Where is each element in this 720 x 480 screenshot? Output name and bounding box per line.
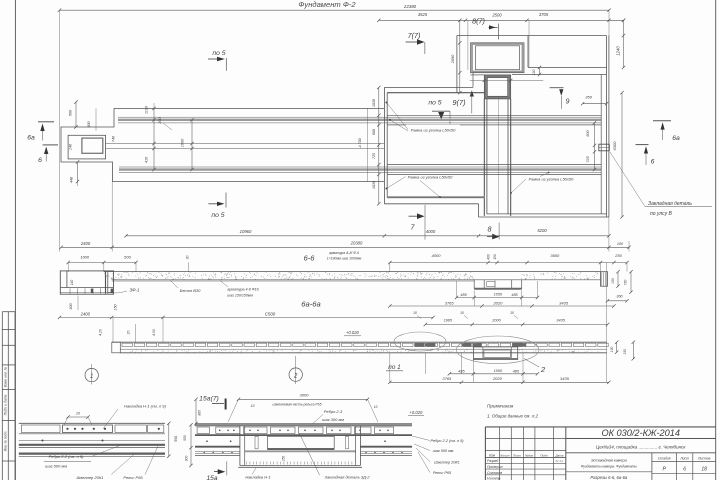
svg-text:С500: С500 — [265, 311, 276, 316]
detail mid lower rows outside tub — [195, 451, 240, 453]
detail mid boxes row — [197, 427, 209, 434]
svg-text:Инв. № подл.: Инв. № подл. — [3, 431, 7, 452]
svg-text:Взам. инв. №: Взам. инв. № — [3, 366, 7, 387]
svg-text:1100: 1100 — [145, 105, 149, 114]
ellipse highlight joint — [456, 336, 538, 364]
svg-text:740: 740 — [112, 135, 116, 142]
structure left wall — [383, 87, 385, 203]
detail mid box rivets — [219, 430, 221, 432]
svg-text:Рельс Р65: Рельс Р65 — [123, 475, 143, 480]
svg-text:150: 150 — [611, 278, 615, 284]
svg-text:6-6: 6-6 — [304, 253, 316, 262]
svg-text:по 5: по 5 — [212, 50, 225, 57]
svg-text:1965: 1965 — [444, 319, 453, 323]
svg-text:300: 300 — [69, 302, 73, 309]
svg-text:15а: 15а — [206, 475, 217, 480]
svg-text:6: 6 — [651, 159, 655, 166]
svg-text:2: 2 — [293, 373, 298, 379]
joint extension verticals — [424, 353, 426, 374]
svg-text:725: 725 — [586, 155, 590, 162]
svg-text:Листов: Листов — [697, 457, 711, 461]
svg-text:2020: 2020 — [492, 300, 503, 305]
svg-text:Рамка из уголка L50x50: Рамка из уголка L50x50 — [408, 175, 453, 180]
cut marker 6a right — [653, 120, 671, 122]
svg-text:Кол.уч: Кол.уч — [501, 453, 510, 457]
svg-text:150: 150 — [623, 349, 627, 355]
svg-text:2400: 2400 — [80, 241, 91, 246]
svg-text:22380: 22380 — [403, 4, 417, 9]
section 6a-6a plank row — [122, 343, 132, 346]
dim row 3525-2500-3705 — [379, 19, 624, 21]
detail rail dark band 2 — [19, 453, 165, 455]
svg-text:Стадия: Стадия — [658, 457, 671, 461]
structure top-left wall — [384, 86, 473, 88]
detail dim 10 — [68, 416, 88, 418]
svg-text:изменяемая часть рельса Р65: изменяемая часть рельса Р65 — [273, 402, 322, 406]
dip extension verticals — [473, 291, 475, 307]
svg-text:Разрезы 6-6, 6а-6а: Разрезы 6-6, 6а-6а — [590, 475, 628, 480]
svg-text:130: 130 — [532, 70, 536, 76]
detail dim 550 right — [168, 423, 170, 456]
section flag 9 — [550, 87, 564, 89]
detail rail plan top line — [19, 422, 165, 424]
svg-text:10: 10 — [251, 404, 255, 408]
svg-text:4000: 4000 — [426, 229, 436, 234]
svg-text:4.00: 4.00 — [152, 329, 156, 336]
frame stamp column lines — [1, 312, 3, 480]
svg-text:шаг 300 мм: шаг 300 мм — [322, 417, 344, 422]
svg-text:140: 140 — [70, 280, 74, 286]
svg-text:485: 485 — [511, 293, 518, 297]
detail rail dark band 1 — [19, 444, 165, 446]
svg-text:730: 730 — [623, 280, 627, 286]
svg-text:шаг 500 мм: шаг 500 мм — [433, 449, 454, 453]
label ramka 1 — [406, 125, 460, 133]
detail rail under line — [19, 433, 165, 435]
svg-text:6а-6а: 6а-6а — [301, 299, 320, 308]
svg-text:9: 9 — [566, 97, 570, 106]
section 6-6 footing outline — [60, 271, 113, 294]
svg-text:200: 200 — [158, 116, 162, 124]
dim 600 725 right wall — [594, 123, 596, 170]
rail band 2 lower thin — [119, 172, 601, 174]
svg-text:3000: 3000 — [300, 392, 310, 397]
section 6a-6a dark planks — [414, 343, 424, 346]
section 6-6 middle dip — [475, 272, 522, 279]
svg-text:Закладная деталь ЗД-2: Закладная деталь ЗД-2 — [325, 474, 371, 479]
dim row 4000 3650 250 — [390, 262, 627, 264]
axis bubble 2 — [295, 356, 297, 384]
footing slab cells — [69, 288, 71, 294]
title block left grid verticals — [498, 427, 500, 480]
sheet inner border right — [715, 0, 717, 480]
svg-text:360: 360 — [616, 294, 623, 298]
dim 130 bracket — [539, 67, 541, 74]
structure bottom edge — [479, 216, 609, 218]
svg-text:2500: 2500 — [491, 12, 502, 17]
svg-text:15а(7): 15а(7) — [199, 396, 219, 403]
svg-text:400: 400 — [487, 254, 491, 260]
svg-text:1240: 1240 — [616, 46, 621, 56]
lower pit U2 — [486, 76, 510, 97]
svg-text:по улсу В: по улсу В — [650, 211, 673, 217]
svg-text:9(7): 9(7) — [452, 98, 466, 107]
title block outer — [485, 426, 715, 428]
svg-text:485: 485 — [513, 369, 520, 373]
dim 22380 top line — [60, 9, 610, 11]
detail rail box rivets — [66, 428, 68, 430]
label по 5 bottom with flag — [208, 203, 217, 205]
svg-text:1600: 1600 — [181, 138, 185, 147]
section 6a-6a right end dims — [606, 263, 608, 383]
svg-text:10: 10 — [374, 405, 378, 409]
cut marker 6a left — [38, 121, 54, 123]
pit connector lines — [472, 73, 474, 88]
structure right wall — [606, 36, 608, 218]
svg-text:1050: 1050 — [494, 369, 503, 373]
svg-text:1038: 1038 — [372, 181, 376, 189]
joint tub 6a-6a — [473, 347, 517, 360]
dim 1600 500 row — [68, 261, 136, 263]
dim under pit plan — [470, 79, 544, 81]
svg-text:20380: 20380 — [350, 241, 363, 246]
detail mid dim 3000 — [239, 398, 368, 400]
svg-text:по 1: по 1 — [388, 364, 401, 371]
svg-text:5200: 5200 — [537, 228, 547, 233]
svg-text:Подп. и дата: Подп. и дата — [3, 395, 7, 416]
svg-text:30: 30 — [186, 256, 190, 260]
svg-text:8(7): 8(7) — [472, 17, 485, 26]
collar left wall — [456, 36, 458, 93]
section 6a-6a band top — [112, 341, 607, 343]
upper right room bottom wall — [528, 66, 607, 68]
svg-text:+0.020: +0.020 — [346, 330, 360, 335]
svg-text:1050: 1050 — [494, 292, 503, 296]
svg-text:100: 100 — [617, 242, 624, 246]
svg-text:Н.контр: Н.контр — [487, 477, 501, 480]
detail tub bottom — [240, 465, 361, 467]
svg-text:Накладка Н-1: Накладка Н-1 — [245, 474, 270, 479]
svg-text:арматура А-III Ф-6: арматура А-III Ф-6 — [329, 251, 359, 255]
dims 485 1050 485 six-six — [457, 297, 538, 299]
svg-text:Швеллер 20К1: Швеллер 20К1 — [434, 460, 460, 464]
section 6-6 band bottom lines — [112, 279, 601, 281]
svg-text:10: 10 — [510, 311, 514, 315]
strip top edge — [114, 107, 384, 109]
svg-text:3435: 3435 — [559, 300, 569, 305]
bottom wall lower-left room gray — [387, 196, 484, 198]
right end dims six-six — [617, 272, 619, 287]
upper pit U1 — [472, 44, 523, 72]
structure bottom-left outline — [384, 203, 478, 205]
dims 485 1050 485 joint — [449, 373, 537, 375]
elevation 4.700 — [366, 108, 368, 181]
dims 3765 2020 3435 six-six — [390, 305, 614, 307]
detail tub diagonal leader — [299, 433, 319, 475]
detail mid top gray band — [195, 424, 412, 426]
dim 1240 right vertical — [623, 20, 625, 67]
section 6a-6a stipple — [130, 350, 472, 353]
svg-text:L=190мм шаг 1000мм: L=190мм шаг 1000мм — [327, 256, 362, 260]
dim line 2400 C500 row — [60, 316, 434, 318]
section 6-6 extension verticals — [67, 262, 69, 272]
svg-text:4000: 4000 — [432, 253, 442, 258]
svg-text:Накладка Н-1 (см. л 9): Накладка Н-1 (см. л 9) — [124, 404, 166, 409]
detail mid rail web dots — [230, 440, 232, 442]
dim 6300 right — [621, 93, 623, 217]
svg-text:Цех№34, площадка .............: Цех№34, площадка ............... г. Челя… — [596, 445, 686, 450]
room divider lines horizontal — [387, 114, 601, 116]
dim row A plan bottom — [126, 235, 609, 237]
detail tub mid lines — [245, 450, 356, 452]
svg-text:Подп: Подп — [540, 453, 548, 457]
svg-text:3705: 3705 — [539, 12, 549, 17]
detail vertical dims left — [195, 399, 197, 423]
dim 1600 strip vertical — [191, 120, 193, 170]
title block stage grid — [651, 453, 653, 480]
svg-text:шаг 150/150мм: шаг 150/150мм — [227, 294, 253, 298]
extension line left x60 — [59, 10, 61, 251]
svg-text:Рамка из уголка L50x50: Рамка из уголка L50x50 — [411, 128, 456, 133]
structure top edge — [457, 35, 607, 37]
svg-text:250: 250 — [281, 456, 285, 463]
svg-text:150: 150 — [493, 254, 497, 260]
dims 3765 2020 3435 joint — [390, 381, 609, 383]
right inner wall — [600, 75, 602, 214]
svg-text:по 5: по 5 — [211, 212, 224, 219]
sheet inner border left — [14, 0, 16, 480]
strip bottom edge — [113, 181, 385, 183]
svg-text:Ребро 2-2 (см. л 9): Ребро 2-2 (см. л 9) — [430, 439, 464, 443]
svg-text:4.20: 4.20 — [98, 329, 102, 336]
svg-text:Бетон В30: Бетон В30 — [180, 288, 202, 293]
svg-text:860: 860 — [198, 410, 202, 416]
section 6-6 band top — [104, 271, 601, 273]
svg-text:485: 485 — [458, 369, 465, 373]
svg-text:Рельс Р65: Рельс Р65 — [433, 471, 452, 475]
svg-text:130: 130 — [610, 347, 614, 353]
svg-text:2: 2 — [540, 365, 546, 374]
section 6-6 stipple — [104, 272, 598, 279]
svg-text:6: 6 — [683, 467, 686, 473]
footing inner rect — [68, 135, 106, 159]
svg-text:3765: 3765 — [445, 300, 455, 305]
svg-text:3650: 3650 — [550, 253, 560, 258]
svg-text:350: 350 — [585, 95, 592, 100]
title block left grid horizontals — [485, 437, 565, 439]
svg-text:2400: 2400 — [80, 311, 91, 316]
svg-text:арматура 4-8 Ф16: арматура 4-8 Ф16 — [227, 288, 258, 292]
cut marker 6 left — [43, 144, 58, 146]
svg-text:№док: №док — [525, 453, 534, 457]
svg-text:Ребро 2-3: Ребро 2-3 — [324, 409, 343, 414]
detail mid rail dark flange bottom — [195, 446, 240, 448]
svg-text:300: 300 — [185, 456, 189, 462]
svg-text:Проверил: Проверил — [487, 465, 503, 469]
svg-text:по 5: по 5 — [428, 100, 441, 107]
svg-text:3765: 3765 — [442, 376, 452, 381]
dim row 1965 2000 3435 above band — [425, 324, 607, 326]
svg-text:1038: 1038 — [372, 99, 376, 107]
shaft center line — [497, 99, 499, 214]
detail tub rib pairs — [255, 436, 258, 449]
footing outer outline — [61, 108, 114, 181]
svg-text:Фундаменты камеры. Фундаменты: Фундаменты камеры. Фундаменты — [581, 465, 638, 469]
embedded detail protrusion right wall — [599, 144, 610, 151]
svg-text:8: 8 — [488, 225, 492, 234]
svg-text:2090: 2090 — [451, 54, 455, 64]
svg-text:10960: 10960 — [240, 229, 252, 234]
cut marker 6 right — [636, 144, 649, 146]
pit dim extensions — [528, 20, 530, 67]
svg-text:725: 725 — [372, 153, 376, 159]
svg-text:600: 600 — [372, 129, 376, 135]
detail rail boxes — [21, 425, 60, 433]
rail band 2 gray — [119, 168, 601, 170]
section 6-6 right end block — [601, 272, 608, 287]
svg-text:6а: 6а — [672, 135, 680, 142]
svg-text:Лист: Лист — [679, 457, 689, 461]
axis bubble 1 — [91, 364, 93, 385]
svg-text:300: 300 — [87, 120, 91, 127]
rail band 1 lower thin — [118, 122, 601, 124]
svg-text:10: 10 — [460, 311, 464, 315]
svg-text:500: 500 — [124, 254, 131, 259]
shaft walls — [483, 99, 485, 216]
detail tub inner big rect — [268, 436, 335, 449]
svg-text:3435: 3435 — [556, 319, 565, 323]
svg-text:шаг 500 мм: шаг 500 мм — [45, 464, 67, 469]
svg-text:3525: 3525 — [418, 12, 428, 17]
svg-text:150: 150 — [114, 303, 118, 310]
svg-text:600: 600 — [586, 129, 590, 136]
svg-text:Разраб: Разраб — [487, 459, 498, 463]
svg-text:Швеллер 20К1: Швеллер 20К1 — [77, 475, 104, 480]
svg-text:Согласов: Согласов — [487, 471, 502, 475]
extension line right wall top — [608, 10, 610, 35]
plan extension lines down — [111, 182, 113, 252]
svg-text:448: 448 — [70, 176, 74, 183]
svg-text:6300: 6300 — [612, 141, 617, 151]
svg-text:1600: 1600 — [80, 254, 90, 259]
svg-text:2000: 2000 — [491, 319, 501, 323]
svg-text:Примечания: Примечания — [487, 404, 514, 409]
rail band 1 gray — [118, 119, 601, 121]
svg-text:10: 10 — [413, 311, 417, 315]
detail tub walls — [239, 426, 241, 466]
svg-text:2020: 2020 — [492, 376, 503, 381]
svg-text:3435: 3435 — [560, 376, 570, 381]
section 6a-6a under lines — [120, 348, 606, 350]
dim 2090 vertical — [459, 20, 461, 92]
svg-text:ЗФ-1: ЗФ-1 — [130, 288, 141, 293]
svg-text:Изм: Изм — [489, 453, 496, 457]
svg-text:6: 6 — [38, 157, 42, 164]
section 6a-6a left cap — [112, 342, 121, 353]
footing pit rect — [82, 138, 103, 153]
rail band 1 upper thin — [118, 116, 601, 118]
left dims 1038 600 725 1038 — [378, 87, 380, 203]
svg-text:-4.700: -4.700 — [358, 138, 362, 148]
svg-text:Дата: Дата — [555, 453, 564, 457]
dim 500 footing top — [75, 102, 77, 127]
svg-text:Фундамент Ф-2: Фундамент Ф-2 — [298, 0, 356, 9]
svg-text:Ребро 2-2 (см. л 9): Ребро 2-2 (см. л 9) — [49, 454, 84, 459]
ellipse highlight left — [394, 332, 446, 351]
svg-text:410: 410 — [145, 156, 149, 163]
svg-text:20: 20 — [126, 331, 130, 336]
svg-text:500: 500 — [69, 109, 73, 116]
section flag 7 bottom — [409, 215, 422, 217]
svg-text:485: 485 — [460, 293, 467, 297]
svg-text:250: 250 — [614, 253, 622, 258]
svg-text:6а: 6а — [27, 135, 35, 142]
dim row B plan bottom — [61, 246, 629, 248]
svg-text:550: 550 — [183, 435, 187, 441]
svg-text:12.14: 12.14 — [555, 459, 563, 463]
svg-text:7(7): 7(7) — [408, 31, 421, 40]
rail band 2 upper thin — [119, 166, 601, 168]
svg-text:18: 18 — [701, 467, 707, 473]
svg-text:Эстакадная камера: Эстакадная камера — [591, 459, 627, 463]
detail rail dotted line — [19, 440, 165, 442]
svg-text:ОК 030/2-КЖ-2014: ОК 030/2-КЖ-2014 — [601, 428, 680, 438]
svg-text:Рамка из уголка L50x50: Рамка из уголка L50x50 — [529, 177, 574, 182]
detail mid rail dark flange top — [195, 434, 412, 436]
svg-text:1. Общие данные см. л.2: 1. Общие данные см. л.2 — [487, 414, 539, 419]
svg-text:140: 140 — [69, 143, 73, 150]
svg-text:550: 550 — [174, 436, 178, 442]
svg-text:Лист: Лист — [512, 453, 521, 457]
svg-text:Закладная деталь: Закладная деталь — [648, 201, 692, 207]
svg-text:+0.020: +0.020 — [409, 410, 423, 415]
svg-text:1: 1 — [90, 374, 93, 380]
footing pit to strip lines — [106, 143, 385, 145]
detail tub hatch ticks — [247, 462, 352, 465]
upper right room left wall — [527, 36, 529, 68]
